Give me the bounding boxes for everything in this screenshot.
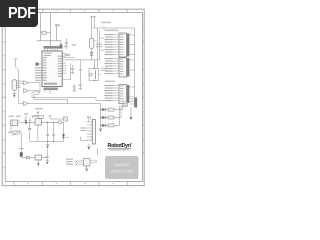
IC U1 inner right pin names — [58, 56, 62, 77]
IC U1 body — [42, 51, 62, 87]
svg-text:32SOP PL2303: 32SOP PL2303 — [110, 170, 133, 174]
ground LED rows — [99, 127, 103, 129]
label C3 value — [64, 45, 67, 46]
top right small text — [101, 22, 111, 24]
regulator U2 — [35, 119, 41, 125]
logo registered mark — [131, 143, 132, 144]
gate U5C — [24, 101, 29, 106]
J5 stubs — [130, 99, 134, 104]
stub gnd a — [24, 118, 27, 121]
net flag b — [93, 16, 95, 18]
fuse F2 — [13, 131, 20, 134]
K1 stub — [39, 63, 42, 65]
frame column ticks top — [14, 9, 127, 12]
header block3 pin wires — [113, 86, 120, 101]
component K1 left of IC — [35, 63, 38, 66]
junction dot row2 — [100, 117, 102, 119]
resistor R2 — [108, 108, 114, 111]
IC U1 bottom label row — [44, 88, 59, 91]
junction dot row1 — [100, 109, 102, 111]
wires row2 — [101, 105, 122, 118]
right bus vertical — [134, 28, 136, 97]
wire F2 to Q1 — [20, 133, 22, 153]
wire right bottom — [97, 148, 99, 155]
U3 gnd — [37, 160, 39, 163]
wire IC pin down b — [49, 90, 51, 94]
junction dot row3 — [100, 125, 102, 127]
wire to loop corner — [62, 122, 64, 141]
ICSP header body — [92, 120, 95, 145]
title box — [105, 156, 139, 179]
F1 side stub — [94, 40, 97, 42]
ground C2 — [65, 47, 69, 48]
frame row ticks left — [2, 42, 5, 153]
S1 contact bar — [95, 70, 97, 79]
ground C4 — [71, 72, 75, 73]
wires row1 — [101, 105, 123, 110]
label above C3 — [72, 44, 76, 46]
header J1 pin numbers — [120, 34, 123, 55]
IC U1 right pin stubs — [62, 54, 66, 74]
regulator U3 — [35, 155, 42, 160]
header J3 body — [119, 85, 127, 104]
header J3 pin numbers — [120, 86, 123, 102]
wire 5V out — [41, 121, 58, 123]
resistor R3 — [108, 116, 114, 119]
X2 pins — [17, 81, 21, 88]
wire gate1 out — [28, 83, 40, 98]
U2 label — [34, 115, 43, 116]
LED D4 — [102, 124, 105, 127]
DC jack X1 — [11, 120, 18, 126]
net text right — [35, 116, 38, 117]
power header J5 shroud — [134, 98, 137, 108]
PWR label — [66, 137, 69, 138]
header J2 right stubs — [130, 60, 135, 70]
wire VBUS vertical — [49, 13, 51, 46]
frame row ticks right — [142, 42, 144, 153]
wire USB shield vertical — [40, 13, 42, 41]
IC U1 bottom stubs — [45, 87, 58, 88]
ICSP top wires — [87, 116, 91, 122]
wire jack to F2 — [11, 126, 13, 133]
cap X left of U4 — [75, 160, 77, 165]
net stub VIN — [25, 115, 27, 121]
ground C5 — [79, 88, 83, 89]
X1 pins — [17, 121, 20, 124]
header J1 shroud — [127, 34, 129, 57]
wire VCC down arrow — [130, 108, 132, 118]
wire VIN row — [20, 121, 35, 123]
net text DTR — [35, 108, 43, 109]
diode D5 bar — [25, 121, 26, 124]
resistor R1 — [42, 31, 46, 34]
header block3 left labels — [105, 85, 113, 101]
wire top net long — [92, 27, 135, 29]
IC U1 part name — [44, 83, 57, 85]
sheet background — [0, 0, 149, 198]
LED D3 — [102, 116, 105, 119]
wire X2 to gate — [21, 81, 24, 84]
U2 gnd stub — [37, 125, 39, 141]
wire IC pin down a — [44, 90, 46, 92]
LED PWR D6 — [62, 134, 65, 137]
IC U1 inner left pin names — [43, 57, 47, 81]
header J3 right stubs — [130, 87, 135, 97]
S1 right stub — [99, 74, 101, 76]
wire VUSB vertical — [56, 26, 58, 41]
IC U4 — [84, 159, 90, 166]
LED feed vertical — [100, 110, 102, 129]
bead L1 — [79, 69, 82, 70]
net label GND1 — [9, 116, 15, 117]
ground C6 — [72, 90, 76, 91]
wire header feed B — [99, 31, 101, 60]
ground X2 — [12, 90, 16, 93]
LED D2 — [102, 108, 105, 111]
transistor Q1 — [20, 152, 23, 156]
ICSP pin ticks — [91, 121, 93, 140]
diode D1 — [90, 52, 93, 55]
IC U1 inner top text — [44, 53, 52, 54]
fuse F3 oval — [58, 121, 62, 124]
capacitor C4 — [71, 65, 74, 72]
gate U5A — [24, 81, 29, 86]
header title Digital IO — [105, 30, 119, 32]
frame column ticks bottom — [14, 182, 127, 186]
ICSP pin stubs — [87, 122, 91, 140]
wire fuse feed — [91, 18, 93, 39]
IOREF labels — [96, 44, 102, 48]
wire 5V rail — [62, 59, 100, 61]
wire stub title — [103, 26, 105, 30]
wire D7 to U3 — [30, 157, 36, 159]
IC U1 left pin stubs — [41, 68, 42, 78]
net flag box — [64, 117, 68, 121]
logo underline — [108, 147, 132, 150]
F2 arrow — [12, 130, 21, 135]
VIN label — [24, 113, 28, 114]
header J1 right stubs — [130, 35, 135, 55]
VCC arrowhead — [130, 117, 133, 120]
logo subtitle — [109, 149, 129, 150]
svg-text:UNO R3: UNO R3 — [115, 163, 129, 167]
capacitor C6 below IC — [73, 84, 76, 90]
net arrow DTR — [37, 112, 39, 115]
wire gate feed vertical — [16, 59, 24, 104]
PDF badge — [0, 0, 38, 27]
ground X2 arrow — [13, 95, 16, 98]
net label GND2 — [16, 116, 21, 117]
header J3 shroud — [127, 85, 129, 103]
capacitor C2 — [65, 39, 68, 48]
frame outer border — [2, 9, 144, 185]
label 16MHz — [65, 54, 70, 56]
header J2 shroud — [127, 58, 129, 77]
wire AREF down — [62, 63, 70, 80]
SJ1 inner text — [124, 102, 127, 105]
R1 stubs — [41, 32, 43, 34]
diode D7 — [26, 156, 29, 159]
capacitor C9 — [52, 122, 55, 141]
USB connector X2 — [12, 80, 17, 91]
wire RXD long — [62, 57, 74, 59]
header block1 pin wires — [113, 35, 120, 55]
wires row3 — [101, 105, 120, 125]
wire U3 out — [42, 157, 48, 159]
cap X right of U4 — [95, 160, 97, 162]
net flag VUSB — [55, 24, 60, 26]
net flag a — [90, 16, 92, 18]
header block2 pin wires — [113, 59, 120, 74]
ICSP left wire — [81, 137, 89, 141]
header J2 body — [119, 58, 127, 78]
wire VBUS top — [94, 18, 96, 29]
wire serial nested — [34, 99, 68, 103]
wire IC bottom to headers — [32, 98, 104, 101]
gate U5B — [24, 88, 29, 93]
junction dots rail — [47, 122, 48, 123]
stub gnd b — [29, 118, 32, 121]
T bar mark — [19, 148, 24, 150]
S1 feed from rail — [94, 60, 96, 69]
header block1 left labels — [105, 34, 113, 55]
wire D+/D- horizontal — [37, 41, 62, 45]
net arrow symbol — [32, 116, 35, 118]
ground LED arrow — [99, 129, 101, 132]
net stub T — [14, 58, 18, 60]
wire AVCC vertical — [79, 60, 81, 84]
junction dots S1 — [94, 68, 95, 69]
F2 label — [8, 132, 11, 133]
polyfuse F1 — [89, 38, 94, 48]
ground C10 arrow — [46, 162, 48, 165]
IC U1 top pin label row — [44, 46, 61, 49]
frame margin cell marks — [3, 10, 144, 184]
bottom rail — [30, 140, 64, 142]
U4 left text labels — [66, 159, 73, 165]
header J2 pin numbers — [120, 59, 123, 75]
crystal Y1 — [60, 45, 62, 49]
junction dots bottom rail — [47, 141, 48, 142]
U4 ground — [85, 166, 89, 168]
ICSP ground — [87, 144, 91, 146]
capacitor C10 — [45, 149, 49, 161]
ground rail — [46, 141, 50, 144]
capacitor C12 box — [39, 115, 44, 118]
wire F1 to rail — [91, 49, 93, 60]
IC U1 left outside labels — [35, 67, 41, 81]
reset button S1 loop — [89, 69, 99, 81]
RN1 labels — [101, 68, 108, 71]
capacitor C8 — [46, 122, 49, 141]
resistor R4 — [108, 124, 114, 127]
ICSP labels — [81, 127, 87, 131]
U4 pins — [79, 160, 95, 164]
IC U1 top pin stubs — [45, 49, 58, 51]
jumper box SJ1 — [123, 102, 128, 107]
net name texts left of J1 — [101, 38, 104, 51]
wire gate2 out — [28, 91, 39, 100]
header J1 body — [119, 33, 127, 57]
wire XT row — [49, 116, 64, 120]
S1 button circle — [89, 73, 92, 76]
wire Q1 out — [20, 156, 22, 159]
wire gate3 out long — [28, 103, 101, 109]
frame inner border — [5, 13, 142, 182]
header title Analog — [105, 81, 115, 82]
capacitor C7 — [29, 122, 31, 141]
header block2 left labels — [105, 58, 113, 74]
capacitor C5 — [79, 84, 82, 88]
wire header feed A — [97, 28, 99, 69]
